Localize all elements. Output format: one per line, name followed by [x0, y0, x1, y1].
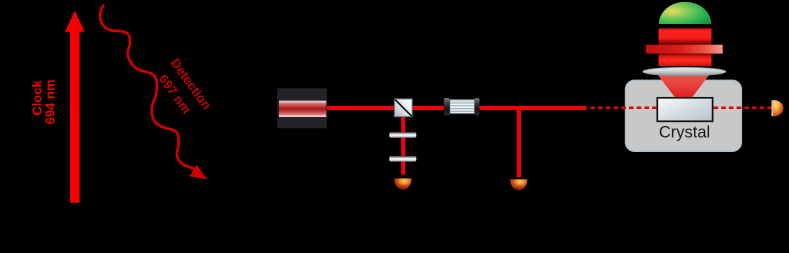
wire: reflected beam down from beamsplitter	[401, 114, 405, 175]
waveplate WP2	[389, 156, 416, 162]
label: 694 nm	[42, 79, 57, 124]
wire: beam laser to beamsplitter	[326, 106, 396, 110]
objective: red barrel upper	[659, 28, 712, 44]
clock transition arrow (694 nm)	[65, 11, 85, 203]
label: 697 nm	[156, 72, 194, 117]
label: Crystal	[659, 124, 710, 143]
wire: beam EOM to dashed section	[479, 106, 587, 110]
photodiode PD2	[510, 179, 527, 190]
label: Clock	[29, 81, 44, 116]
wire: dashed beam into crystal	[591, 107, 658, 110]
photodiode PD1	[394, 178, 411, 190]
objective: wide red flange	[646, 45, 723, 54]
cryostat housing box	[626, 80, 742, 151]
laser	[277, 88, 327, 128]
objective: green dome lens	[659, 2, 711, 24]
wire: dashed beam out of crystal to detector	[714, 107, 772, 110]
detector right (transmission)	[772, 100, 784, 117]
wire: pickoff beam down to photodiode PD2	[517, 106, 521, 177]
objective: silver mount plate	[643, 67, 726, 76]
focused beam cone into crystal	[658, 75, 710, 99]
label: Detection	[168, 56, 215, 113]
wire: beam beamsplitter to EOM	[411, 106, 445, 110]
objective: red barrel lower	[659, 54, 712, 66]
crystal	[657, 98, 712, 122]
waveplate WP1	[389, 132, 416, 138]
EOM modulator	[444, 98, 480, 116]
detection photon wavy arrow (697 nm)	[100, 6, 207, 180]
beamsplitter cube	[394, 99, 412, 117]
